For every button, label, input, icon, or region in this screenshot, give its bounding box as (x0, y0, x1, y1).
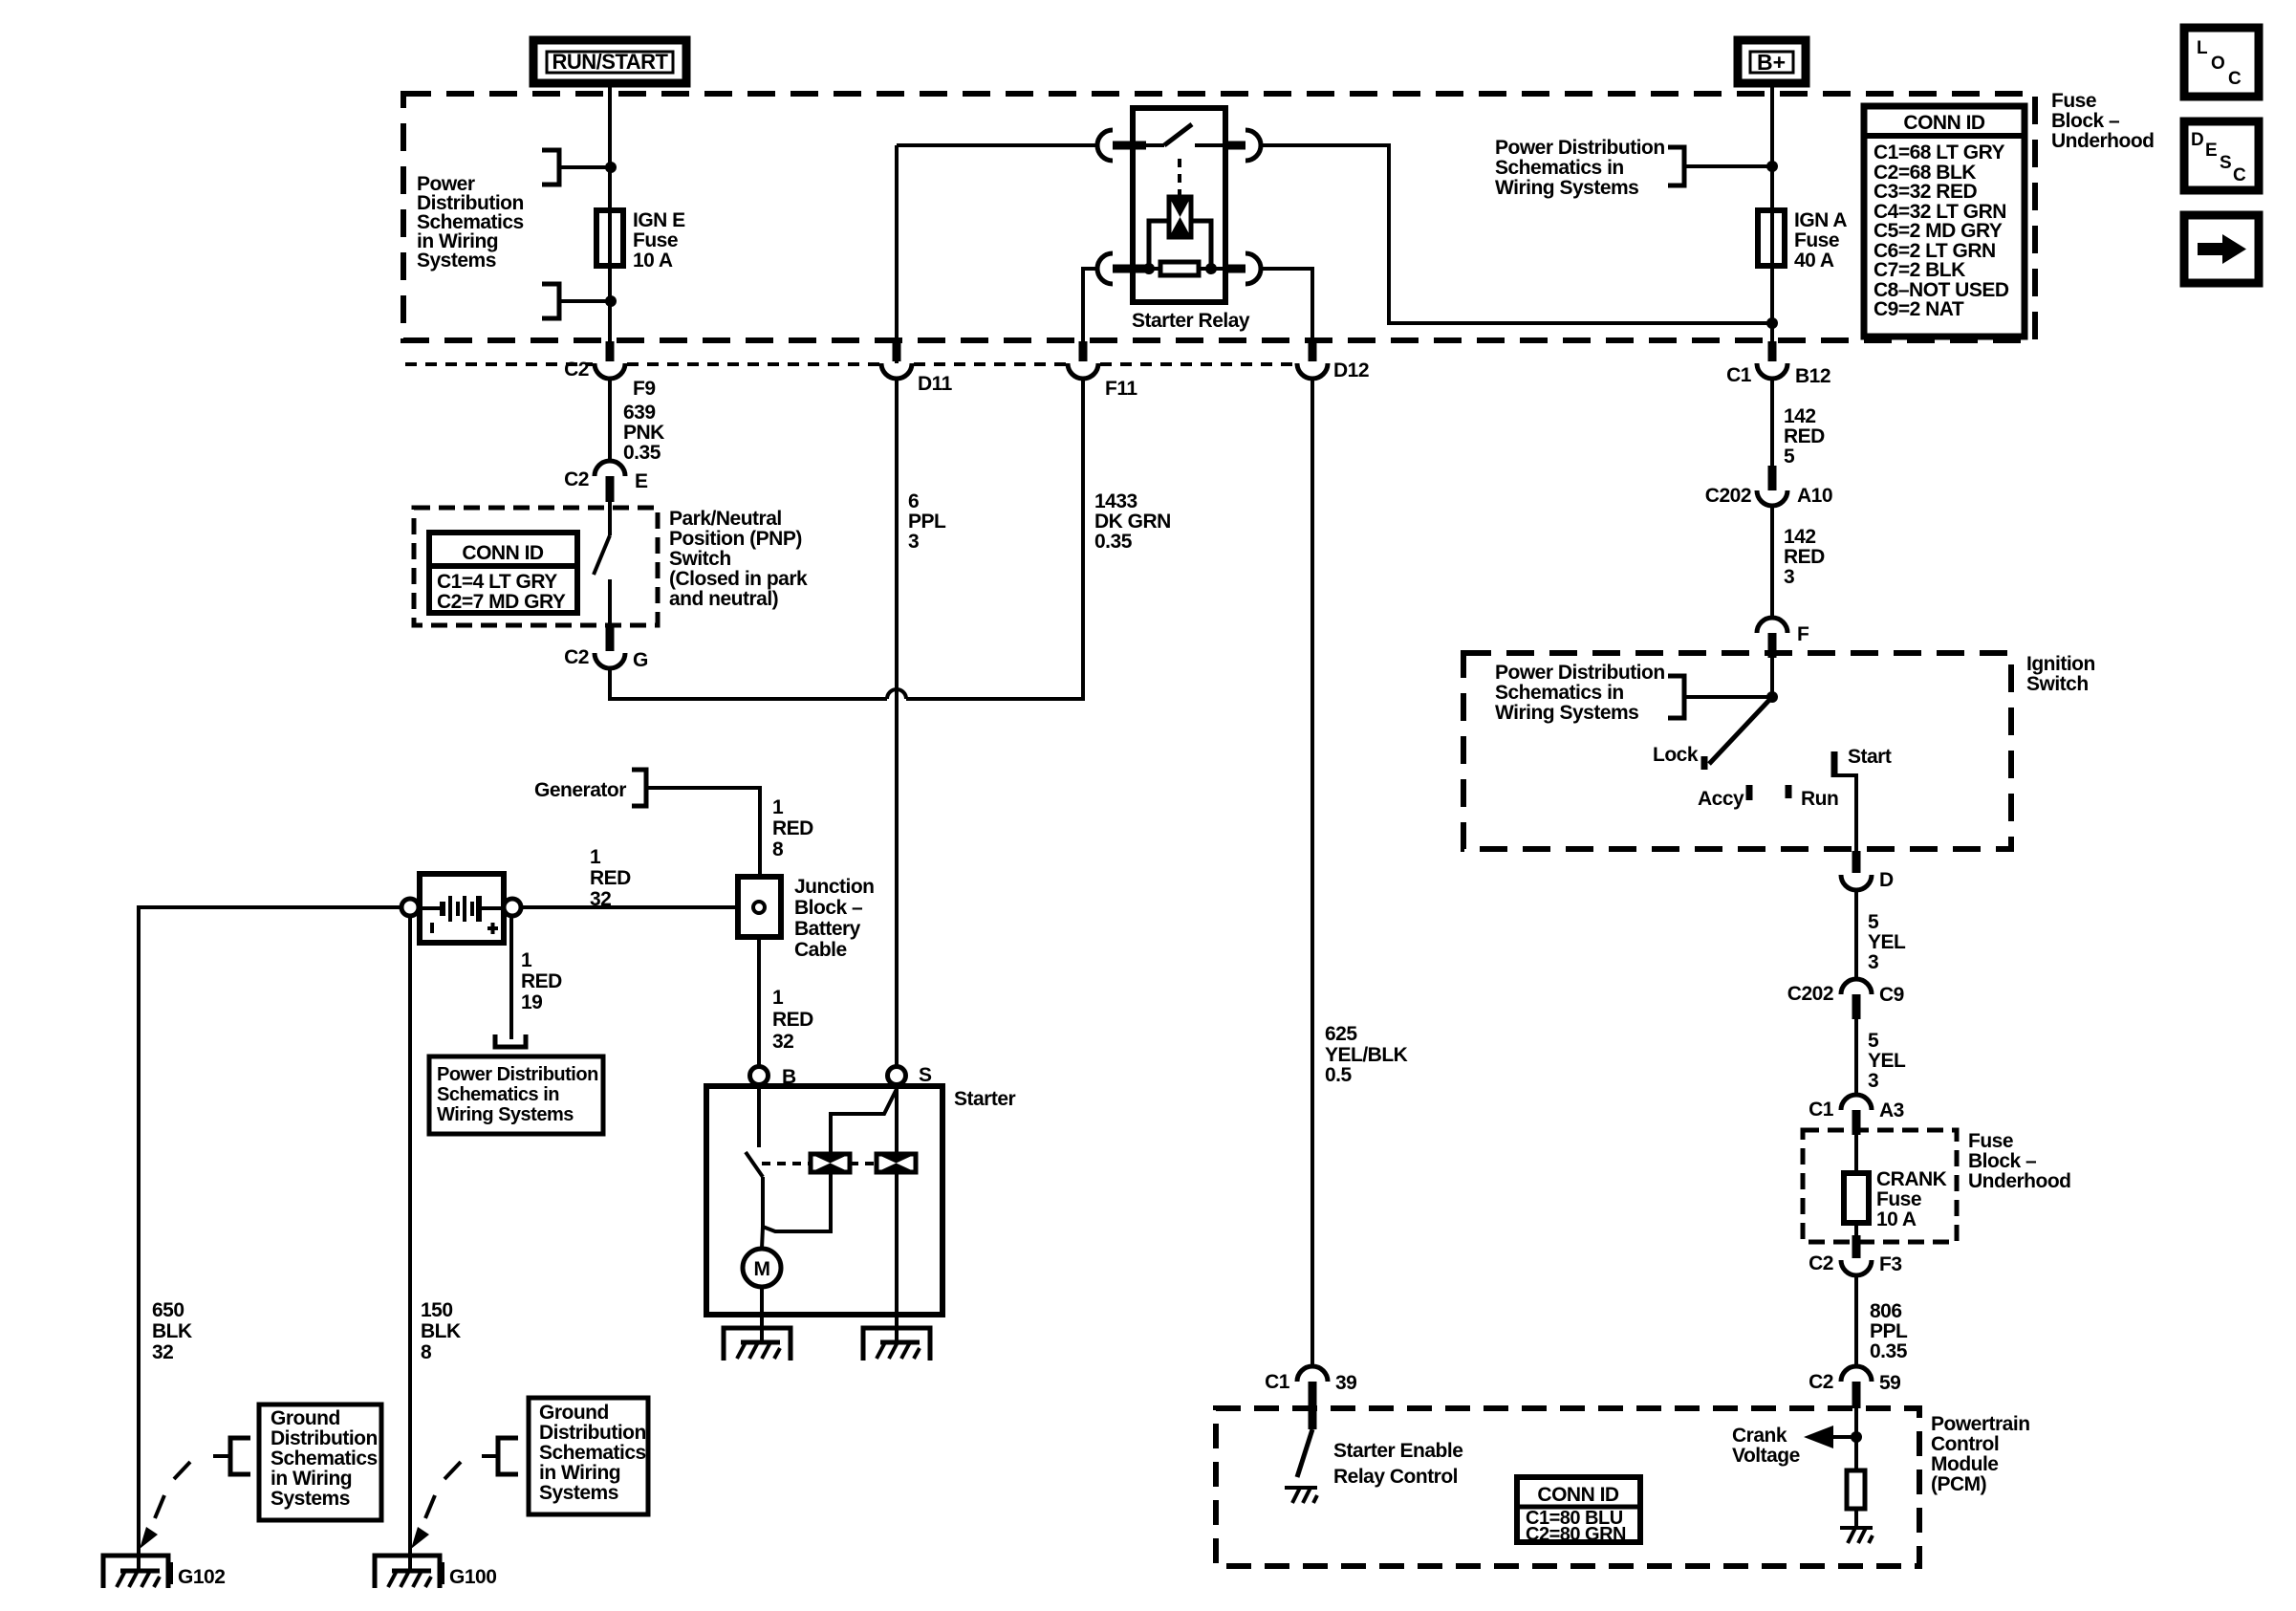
node row: fuse block connector face dotted line (405, 362, 1295, 366)
node junction dot relay coil right (1205, 263, 1217, 274)
starter box (706, 1086, 942, 1315)
resistor: PCM internal (1847, 1470, 1865, 1509)
connector cup: relay top-left (1097, 130, 1113, 161)
svg-text:A3: A3 (1879, 1099, 1904, 1121)
connector D (1841, 851, 1894, 891)
terminal circle S (888, 1067, 906, 1085)
wire: generator to junction block (646, 788, 760, 877)
svg-text:Starter Relay: Starter Relay (1132, 310, 1250, 332)
svg-text:(PCM): (PCM) (1931, 1473, 1986, 1495)
connector pin: relay top-left (1113, 142, 1146, 150)
wire: junction block down to starter B (1 RED 32) (757, 937, 761, 1065)
label 1433 DK GRN 0.35 (1094, 490, 1171, 553)
svg-text:C1: C1 (1726, 364, 1752, 386)
svg-text:Schematics: Schematics (271, 1448, 378, 1469)
svg-text:RED: RED (1784, 546, 1825, 568)
svg-text:RED: RED (1784, 425, 1825, 447)
svg-text:Powertrain: Powertrain (1931, 1413, 2030, 1435)
svg-text:142: 142 (1784, 405, 1816, 427)
LOC corner box (2184, 28, 2259, 97)
bracket: ground distribution stub (right) (498, 1438, 518, 1474)
svg-text:5: 5 (1868, 1030, 1879, 1052)
svg-text:B+: B+ (1757, 50, 1786, 75)
Fuse Block - Underhood dashed box (403, 94, 2035, 340)
svg-text:1433: 1433 (1094, 490, 1137, 512)
svg-text:8: 8 (421, 1341, 432, 1363)
svg-text:Battery: Battery (794, 918, 861, 940)
wire hop: over 6 PPL 3 wire (887, 689, 906, 699)
contact tick: Accy (1746, 785, 1753, 800)
svg-text:625: 625 (1325, 1023, 1357, 1045)
svg-text:Fuse: Fuse (633, 229, 678, 251)
svg-text:M: M (754, 1258, 770, 1280)
svg-text:IGN A: IGN A (1794, 209, 1847, 231)
node junction dot relay feed joins B+ wire (1766, 317, 1778, 329)
svg-text:YEL: YEL (1868, 931, 1906, 953)
junction block - battery cable (738, 877, 781, 937)
svg-text:in Wiring: in Wiring (271, 1468, 352, 1490)
starter linkage dashed (762, 1162, 877, 1165)
CONN ID box (PCM) (1517, 1477, 1640, 1545)
wire: battery negative to left drop (139, 907, 401, 1571)
svg-text:PNK: PNK (623, 422, 664, 444)
svg-text:639: 639 (623, 402, 656, 424)
wire: relay coil side rails (1149, 221, 1211, 269)
label IGN E Fuse 10 A (633, 209, 685, 272)
connector C2/F3 (1809, 1235, 1901, 1275)
svg-text:C9: C9 (1879, 984, 1904, 1006)
svg-text:1: 1 (521, 949, 532, 971)
label 150 BLK 8 (421, 1299, 461, 1363)
svg-text:Fuse: Fuse (1968, 1130, 2013, 1152)
svg-text:1: 1 (590, 846, 601, 868)
svg-text:650: 650 (152, 1299, 184, 1321)
svg-text:142: 142 (1784, 526, 1816, 548)
label IGN A Fuse 40 A (1794, 209, 1847, 272)
svg-text:L: L (2197, 38, 2208, 58)
svg-text:Distribution: Distribution (539, 1422, 646, 1444)
bracket: generator stub (632, 770, 646, 806)
connector C2/E (564, 461, 648, 502)
svg-text:E: E (2205, 141, 2218, 161)
battery (418, 874, 506, 943)
svg-text:C202: C202 (1787, 983, 1833, 1005)
label 1 RED 32 (junction block to starter) (772, 987, 813, 1053)
svg-text:RED: RED (521, 970, 562, 992)
svg-text:Park/Neutral: Park/Neutral (669, 508, 782, 530)
node junction dot crank voltage (1851, 1431, 1862, 1443)
svg-text:C7=2 BLK: C7=2 BLK (1874, 259, 1965, 281)
svg-text:B12: B12 (1795, 365, 1830, 387)
svg-text:150: 150 (421, 1299, 453, 1321)
RUN/START terminal box (533, 40, 686, 83)
node junction dot right tap (1766, 161, 1778, 172)
wire: Start contact down to D (1834, 775, 1856, 851)
label Power Distribution Schematics in Wiring Systems (ignition) (1495, 662, 1665, 724)
wire: 59 into PCM (1854, 1408, 1858, 1470)
svg-text:0.35: 0.35 (1094, 531, 1133, 553)
bracket: continuation stub upper left (542, 150, 559, 185)
svg-text:F: F (1797, 623, 1809, 645)
svg-text:RUN/START: RUN/START (552, 50, 669, 74)
wire: 142 RED 5 (C1 B12 down to C202 A10) (1770, 379, 1774, 468)
svg-text:32: 32 (772, 1031, 793, 1053)
svg-text:Fuse: Fuse (1794, 229, 1839, 251)
wire: A3 into crank fuse (1854, 1135, 1858, 1175)
wire: B+ down through IGN A to C1 B12 (1770, 83, 1774, 343)
svg-text:0.35: 0.35 (1870, 1340, 1908, 1362)
Ground Distribution box (right) (529, 1398, 648, 1514)
label 142 RED 3 (1784, 526, 1825, 588)
CONN ID box (PNP switch) (429, 533, 577, 613)
svg-text:Block –: Block – (2051, 110, 2120, 132)
svg-text:Systems: Systems (271, 1488, 350, 1510)
svg-text:C9=2 NAT: C9=2 NAT (1874, 298, 1964, 320)
label 6 PPL 3 (908, 490, 946, 553)
connector cup: relay bottom-left (1097, 253, 1113, 284)
B+ terminal box (1738, 40, 1806, 83)
connector C202/A10 (1705, 466, 1832, 507)
svg-text:Ground: Ground (539, 1402, 609, 1424)
svg-text:A10: A10 (1797, 485, 1832, 507)
coil: starter pull-in winding (811, 1154, 850, 1172)
svg-text:CONN ID: CONN ID (462, 542, 544, 564)
Power Distribution Schematics box (solid) (429, 1056, 603, 1134)
svg-text:Crank: Crank (1732, 1425, 1787, 1447)
svg-text:D11: D11 (918, 373, 953, 395)
node junction dot upper left tap (605, 162, 617, 173)
Ground Distribution box (left) (259, 1404, 381, 1520)
connector D11 (881, 341, 953, 395)
label 650 BLK 32 (152, 1299, 192, 1363)
svg-text:Block –: Block – (794, 897, 863, 919)
svg-text:CRANK: CRANK (1876, 1168, 1947, 1190)
svg-text:8: 8 (772, 838, 784, 860)
svg-text:C2: C2 (1809, 1252, 1833, 1274)
arrow corner box (2184, 215, 2259, 283)
svg-text:Systems: Systems (417, 250, 496, 272)
svg-text:G: G (633, 649, 648, 671)
svg-text:1: 1 (772, 796, 784, 818)
svg-text:(Closed in park: (Closed in park (669, 568, 808, 590)
wire: battery positive to junction block (521, 905, 738, 909)
bracket: continuation stub (right, fuse block) (1668, 147, 1684, 185)
label Power Distribution Schematics in Wiring Systems (left) (417, 173, 524, 272)
ground: starter solenoid (863, 1328, 930, 1361)
wire: 625 YEL/BLK 0.5 (D12 down to C1 39) (1310, 379, 1314, 1368)
fuse CRANK 10A (1844, 1173, 1869, 1223)
label Fuse Block - Underhood (2051, 90, 2154, 152)
svg-text:C2: C2 (564, 359, 589, 381)
wire: contact down to motor (762, 1177, 763, 1249)
connector pin: relay bottom-left (1113, 265, 1146, 273)
svg-text:PPL: PPL (1870, 1320, 1908, 1342)
svg-text:Ignition: Ignition (2026, 653, 2095, 675)
svg-text:D12: D12 (1333, 359, 1369, 381)
wire: crank voltage branch (1830, 1435, 1856, 1439)
Ignition Switch dashed box (1463, 653, 2011, 849)
svg-text:Relay Control: Relay Control (1333, 1466, 1458, 1488)
svg-text:Run: Run (1801, 788, 1838, 810)
svg-text:Fuse: Fuse (2051, 90, 2096, 112)
svg-text:806: 806 (1870, 1300, 1902, 1322)
Fuse Block Underhood dashed box (CRANK fuse) (1803, 1130, 1957, 1242)
wire: resistor to ground (1854, 1509, 1858, 1528)
relay linkage dashed (1178, 159, 1181, 195)
label 806 PPL 0.35 (1870, 1300, 1908, 1362)
svg-text:S: S (919, 1064, 932, 1086)
svg-text:Starter: Starter (954, 1088, 1016, 1110)
contact tick: Run (1786, 785, 1792, 798)
label 1 RED 19 (521, 949, 562, 1013)
wire: relay top-right to B+ branch (1261, 145, 1769, 323)
battery positive terminal circle (504, 899, 521, 916)
svg-text:Schematics in: Schematics in (1495, 157, 1624, 179)
svg-text:5: 5 (1868, 911, 1879, 933)
motor M (743, 1249, 781, 1287)
svg-text:Generator: Generator (534, 779, 626, 801)
label Powertrain Control Module (PCM) (1931, 1413, 2030, 1495)
wire: continue to F11 riser bottom (906, 379, 1083, 699)
wire: relay bottom-right to D12 riser (1261, 269, 1312, 343)
svg-text:Schematics: Schematics (539, 1442, 646, 1464)
wire: tap to other circuits (lower left) (561, 299, 610, 303)
wire: relay bottom line left segment (1146, 267, 1160, 271)
label 142 RED 5 (1784, 405, 1825, 468)
bracket: ground distribution stub (left) (230, 1438, 250, 1474)
svg-text:Control: Control (1931, 1433, 1999, 1455)
wire: battery negative down (150 BLK 8) (408, 916, 412, 1571)
label CRANK Fuse 10 A (1876, 1168, 1947, 1230)
svg-text:32: 32 (590, 888, 611, 910)
svg-text:Junction: Junction (794, 876, 875, 898)
wire: relay bottom line right segment (1199, 267, 1225, 271)
svg-text:Starter Enable: Starter Enable (1333, 1440, 1462, 1462)
connector C2/F9 (564, 341, 655, 400)
svg-text:0.5: 0.5 (1325, 1064, 1353, 1086)
svg-text:C: C (2233, 165, 2246, 185)
svg-text:10 A: 10 A (633, 250, 673, 272)
svg-text:Wiring Systems: Wiring Systems (1495, 177, 1638, 199)
svg-text:F9: F9 (633, 378, 656, 400)
svg-text:RED: RED (772, 817, 813, 839)
svg-text:Schematics in: Schematics in (437, 1084, 559, 1105)
ground: PCM internal (1840, 1528, 1873, 1543)
resistor: relay parallel resistor (1160, 262, 1199, 275)
wire: 806 PPL 0.35 (1854, 1275, 1858, 1368)
terminal circle B (750, 1067, 769, 1085)
contact tick: Start (1831, 751, 1838, 777)
connector C2/G (564, 627, 648, 671)
wire: 5 YEL 3 (C202 C9 to C1 A3) (1854, 1019, 1858, 1097)
label 625 YEL/BLK 0.5 (1325, 1023, 1408, 1086)
svg-text:C2: C2 (1809, 1371, 1833, 1393)
contact tick: Lock (1701, 756, 1708, 770)
connector C1/A3 (1809, 1095, 1904, 1135)
svg-text:Power Distribution: Power Distribution (1495, 137, 1665, 159)
label 5 YEL 3 (lower) (1868, 1030, 1906, 1092)
svg-text:in Wiring: in Wiring (539, 1462, 620, 1484)
connector F (ignition switch) (1757, 618, 1809, 658)
svg-text:C1: C1 (1265, 1371, 1290, 1393)
svg-text:Switch: Switch (2026, 673, 2089, 695)
svg-text:C2: C2 (564, 646, 589, 668)
svg-text:Voltage: Voltage (1732, 1445, 1800, 1467)
coil: starter hold-in winding (877, 1154, 916, 1172)
svg-text:3: 3 (1868, 951, 1878, 973)
PCM dashed box (1216, 1408, 1919, 1566)
svg-text:Schematics in: Schematics in (1495, 682, 1624, 704)
svg-text:1: 1 (772, 987, 784, 1009)
svg-text:3: 3 (1868, 1070, 1878, 1092)
label Ignition Switch (2026, 653, 2095, 695)
label 1 RED 32 (battery to junction block) (590, 846, 631, 910)
svg-text:DK GRN: DK GRN (1094, 511, 1171, 533)
svg-text:Cable: Cable (794, 939, 847, 961)
svg-text:C1=68 LT GRY: C1=68 LT GRY (1874, 142, 2004, 163)
svg-text:Underhood: Underhood (1968, 1170, 2070, 1192)
svg-text:G100: G100 (449, 1566, 496, 1588)
label 5 YEL 3 (upper) (1868, 911, 1906, 973)
label Junction Block - Battery Cable (794, 876, 875, 961)
svg-text:59: 59 (1879, 1372, 1900, 1394)
leader dash: to G102 (140, 1456, 229, 1549)
svg-text:C1=4 LT GRY: C1=4 LT GRY (437, 571, 557, 593)
svg-text:BLK: BLK (421, 1320, 461, 1342)
wire: PNP switch input stub (608, 502, 612, 535)
switch contact: relay internal switch (1146, 143, 1164, 147)
wire: crank fuse to C2 F3 (1854, 1223, 1858, 1237)
wire: PNP output down and right to F11 wire (610, 668, 887, 699)
connector C1/B12 (1726, 341, 1830, 387)
svg-text:RED: RED (590, 867, 631, 889)
svg-text:C: C (2228, 69, 2242, 89)
svg-text:Distribution: Distribution (271, 1427, 378, 1449)
node junction dot ignition pivot (1766, 691, 1778, 703)
CONN ID box (fuse block underhood) (1864, 106, 2025, 337)
wire: hold-in coil to ground (895, 1172, 899, 1342)
wire: battery positive down (1 RED 19) (509, 916, 513, 1039)
svg-text:39: 39 (1335, 1372, 1356, 1394)
connector cup: relay top-right (1245, 130, 1261, 161)
svg-text:19: 19 (521, 991, 542, 1013)
svg-text:C2=80 GRN: C2=80 GRN (1526, 1524, 1626, 1545)
connector D12 (1297, 341, 1369, 381)
switch blade: starter solenoid contact (746, 1152, 763, 1177)
svg-text:F3: F3 (1879, 1253, 1902, 1275)
label Park/Neutral Position (PNP) Switch (669, 508, 808, 610)
svg-text:3: 3 (908, 531, 919, 553)
svg-text:BLK: BLK (152, 1320, 192, 1342)
svg-text:D: D (2191, 130, 2204, 150)
svg-text:6: 6 (908, 490, 919, 512)
connector C2/59 (1809, 1366, 1900, 1408)
wire: D11 vertical (6 PPL 3) from relay line down to starter S (895, 145, 899, 1065)
relay: Starter Relay box (1133, 108, 1225, 302)
svg-text:Fuse: Fuse (1876, 1188, 1921, 1210)
label Fuse Block - Underhood (crank) (1968, 1130, 2070, 1192)
svg-text:RED: RED (772, 1009, 813, 1031)
switch blade: PNP switch (594, 535, 610, 575)
svg-text:Underhood: Underhood (2051, 130, 2154, 152)
wire: pull-in coil bottom link (763, 1172, 831, 1231)
switch blade: starter enable relay control driver (1297, 1429, 1312, 1477)
battery negative terminal circle (401, 899, 419, 916)
ground G100 (375, 1556, 444, 1588)
svg-text:Power Distribution: Power Distribution (437, 1064, 598, 1085)
svg-text:Wiring Systems: Wiring Systems (437, 1104, 574, 1125)
svg-text:F11: F11 (1105, 378, 1137, 400)
wire: PNP switch output stub (608, 579, 612, 629)
connector pin: relay top-right (1225, 142, 1245, 150)
wire: B into starter (757, 1084, 761, 1147)
label Starter Enable Relay Control (1333, 1440, 1462, 1488)
svg-text:PPL: PPL (908, 511, 946, 533)
arrow: crank voltage (points left) (1804, 1426, 1833, 1448)
ground G102 (103, 1556, 173, 1588)
svg-text:Ground: Ground (271, 1407, 340, 1429)
bracket: continuation stub (ignition switch) (1668, 676, 1684, 718)
relay coil (1169, 197, 1191, 237)
svg-text:IGN E: IGN E (633, 209, 685, 231)
fuse IGN E 10A (596, 210, 623, 266)
svg-text:C2: C2 (564, 468, 589, 490)
ground: starter enable driver (1285, 1488, 1317, 1503)
wire: 639 PNK 0.35 (608, 379, 612, 463)
leader dash: to G100 (411, 1456, 497, 1549)
svg-text:Lock: Lock (1653, 744, 1699, 766)
svg-text:Switch: Switch (669, 548, 731, 570)
connector F11 (1068, 341, 1137, 400)
node junction dot lower left tap (605, 295, 617, 307)
svg-text:C202: C202 (1705, 485, 1751, 507)
label Crank Voltage (1732, 1425, 1800, 1467)
svg-text:and neutral): and neutral) (669, 588, 778, 610)
wire: F to switch pivot (1770, 658, 1774, 697)
switch blade: relay (1164, 124, 1192, 145)
svg-text:Block –: Block – (1968, 1150, 2037, 1172)
wire: relay switch to right pin (1195, 143, 1225, 147)
ground: starter motor (724, 1328, 791, 1361)
svg-text:10 A: 10 A (1876, 1208, 1917, 1230)
PNP switch dashed box (414, 508, 658, 625)
svg-text:S: S (2220, 153, 2232, 173)
svg-text:Accy: Accy (1698, 788, 1744, 810)
svg-text:40 A: 40 A (1794, 250, 1834, 272)
connector cup: relay bottom-right (1245, 253, 1261, 284)
svg-text:C2=7 MD GRY: C2=7 MD GRY (437, 591, 566, 613)
svg-text:C1: C1 (1809, 1099, 1834, 1121)
node junction dot relay coil left (1143, 263, 1155, 274)
svg-text:32: 32 (152, 1341, 173, 1363)
wire: tap from power distribution bracket (right) (1684, 164, 1772, 168)
wire: RUN/START down to C2 F9 (608, 83, 612, 343)
connector C202/C9 (1787, 979, 1904, 1019)
svg-text:0.35: 0.35 (623, 442, 661, 464)
wire: tap to other circuits (upper left) (561, 165, 610, 169)
svg-text:C3=32 RED: C3=32 RED (1874, 181, 1977, 203)
svg-text:5: 5 (1784, 446, 1795, 468)
wire: D11 riser to relay pin 30 feed (897, 143, 1097, 147)
wire: S down through hold-in coil (895, 1084, 899, 1154)
svg-text:Position (PNP): Position (PNP) (669, 528, 802, 550)
svg-text:3: 3 (1784, 566, 1794, 588)
wire: relay bottom-left to F11 riser (1083, 269, 1097, 343)
svg-text:E: E (635, 470, 648, 492)
DESC corner box (2184, 121, 2259, 190)
wire: ignition tap to switch pivot (1684, 695, 1772, 699)
svg-text:Module: Module (1931, 1453, 1999, 1475)
